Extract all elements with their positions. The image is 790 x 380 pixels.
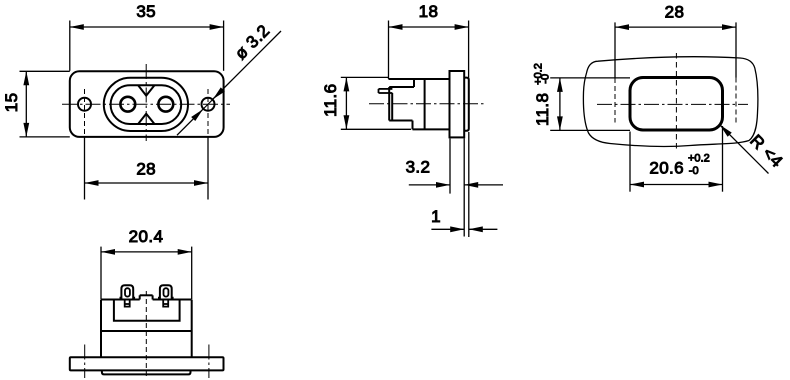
- svg-text:15: 15: [2, 93, 21, 113]
- svg-text:35: 35: [136, 2, 156, 21]
- svg-text:3.2: 3.2: [406, 157, 431, 176]
- svg-text:28: 28: [136, 160, 156, 179]
- svg-text:+0.2: +0.2: [688, 153, 710, 165]
- svg-text:-0: -0: [539, 74, 551, 84]
- svg-text:20.4: 20.4: [129, 227, 164, 246]
- svg-text:11.6: 11.6: [321, 83, 340, 116]
- svg-text:1: 1: [431, 207, 441, 226]
- svg-text:28: 28: [665, 2, 685, 21]
- svg-text:18: 18: [419, 2, 439, 21]
- svg-text:R <4: R <4: [746, 131, 786, 171]
- svg-text:20.6: 20.6: [649, 159, 684, 178]
- svg-text:11.8: 11.8: [533, 93, 552, 126]
- svg-text:ø 3.2: ø 3.2: [231, 21, 273, 63]
- svg-text:-0: -0: [689, 165, 699, 177]
